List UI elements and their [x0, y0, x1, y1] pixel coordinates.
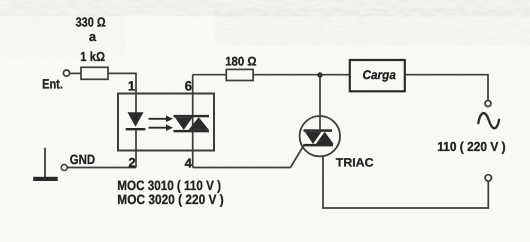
triac bottom bar — [304, 144, 334, 147]
LED D1 anode triangle — [128, 112, 144, 126]
node A junction dot — [317, 72, 322, 77]
svg-text:110 ( 220 V ): 110 ( 220 V ) — [437, 139, 505, 154]
AC source sine symbol — [478, 113, 499, 128]
photo-triac left triangle — [175, 117, 193, 130]
ground symbol — [33, 148, 58, 181]
svg-text:MOC 3010 ( 110 V ): MOC 3010 ( 110 V ) — [117, 178, 221, 193]
photo-triac bottom bar — [174, 130, 210, 132]
svg-text:Ent.: Ent. — [42, 77, 63, 92]
svg-text:TRIAC: TRIAC — [336, 156, 374, 170]
svg-text:2: 2 — [128, 155, 135, 170]
svg-text:330 Ω: 330 Ω — [76, 15, 106, 30]
LED D1 cathode bar — [126, 128, 146, 130]
light arrow 2 — [149, 124, 174, 131]
pin 2 wire from LED down to GND rail — [135, 130, 137, 167]
triac left triangle — [305, 132, 322, 144]
svg-text:4: 4 — [185, 156, 193, 171]
AC top terminal node — [485, 101, 491, 107]
resistor R2 (180 ohm) — [226, 69, 253, 80]
pin 1 wire inside to LED — [135, 94, 137, 114]
wire terminal to R1 — [70, 72, 81, 74]
optocoupler U1 body — [118, 94, 214, 151]
wire load to AC terminal — [405, 75, 488, 101]
svg-text:Carga: Carga — [363, 68, 396, 82]
svg-text:GND: GND — [70, 152, 96, 167]
triac top bar — [304, 129, 333, 132]
pin 6 / pin 4 vertical wire through photo-triac — [192, 75, 194, 168]
photo-triac right triangle — [188, 117, 209, 130]
wire AC bottom terminal to triac MT1 — [323, 156, 488, 208]
svg-text:6: 6 — [185, 78, 193, 93]
triac gate diagonal wire — [290, 145, 304, 168]
wire pin 4 to gate — [193, 167, 291, 169]
GND terminal node — [61, 165, 67, 171]
light arrow 1 — [149, 116, 174, 123]
svg-text:a: a — [89, 29, 97, 44]
photo-triac top bar — [174, 115, 210, 117]
svg-text:1 kΩ: 1 kΩ — [80, 49, 105, 64]
svg-text:MOC 3020 ( 220 V ): MOC 3020 ( 220 V ) — [117, 192, 223, 207]
wire R1 to pin 1 — [108, 73, 136, 93]
resistor R1 (330 ohm a 1 kohm) — [81, 67, 108, 79]
wire pin 6 to R2 — [193, 74, 227, 76]
svg-text:1: 1 — [128, 79, 136, 94]
value label 330 ohm / a / 1 kohm — [76, 15, 106, 65]
triac Q1 body circle — [300, 116, 340, 156]
wire node A down to triac MT2 — [319, 75, 321, 130]
wire R2 to node A — [253, 74, 320, 76]
AC bottom terminal node — [485, 175, 491, 181]
wire GND terminal to pin 2 — [67, 167, 136, 169]
wire node A to load — [320, 74, 350, 76]
input terminal node — [63, 70, 69, 76]
svg-text:180 Ω: 180 Ω — [225, 55, 256, 69]
triac right triangle — [316, 132, 334, 144]
load box Carga — [350, 60, 405, 91]
